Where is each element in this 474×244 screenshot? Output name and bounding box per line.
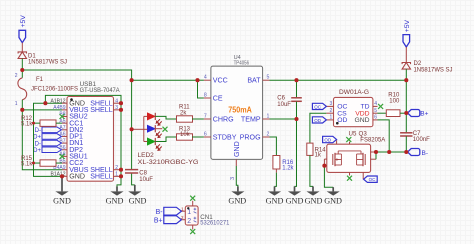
svg-text:F1: F1 xyxy=(36,77,44,83)
svg-text:5.1k: 5.1k xyxy=(21,161,33,167)
svg-text:5: 5 xyxy=(267,75,270,81)
svg-text:100nF: 100nF xyxy=(413,137,430,143)
svg-text:1: 1 xyxy=(181,206,184,211)
svg-text:10uF: 10uF xyxy=(139,177,153,183)
svg-text:GND: GND xyxy=(286,196,304,206)
svg-text:10k: 10k xyxy=(180,132,191,138)
svg-text:5.1k: 5.1k xyxy=(21,121,33,127)
svg-text:1.2k: 1.2k xyxy=(282,165,294,171)
svg-text:GND: GND xyxy=(129,196,147,206)
svg-text:TEMP: TEMP xyxy=(241,115,261,123)
svg-text:OC: OC xyxy=(369,177,377,182)
svg-text:1k: 1k xyxy=(315,153,322,159)
svg-text:B+: B+ xyxy=(154,217,163,224)
svg-text:1N5817WS SJ: 1N5817WS SJ xyxy=(28,60,67,66)
svg-text:C8: C8 xyxy=(139,171,147,177)
svg-text:1: 1 xyxy=(115,172,118,178)
svg-text:2: 2 xyxy=(115,165,118,171)
svg-text:JFC1206-1100FS: JFC1206-1100FS xyxy=(31,87,78,93)
svg-text:+5V: +5V xyxy=(404,19,411,32)
svg-text:1: 1 xyxy=(187,209,191,216)
svg-text:CHRG: CHRG xyxy=(213,115,234,123)
svg-text:D2: D2 xyxy=(414,61,422,67)
svg-text:10uF: 10uF xyxy=(277,102,291,108)
svg-text:6: 6 xyxy=(374,115,377,121)
svg-text:3: 3 xyxy=(115,105,118,111)
svg-text:1: 1 xyxy=(15,101,18,107)
svg-text:D-: D- xyxy=(35,128,41,134)
svg-text:XL-3210RGBC-YG: XL-3210RGBC-YG xyxy=(138,160,199,166)
svg-text:OD: OD xyxy=(337,117,347,124)
svg-text:DW01A-G: DW01A-G xyxy=(339,89,369,96)
svg-text:SHELL: SHELL xyxy=(90,106,113,114)
svg-text:2: 2 xyxy=(15,73,18,79)
svg-text:GND: GND xyxy=(266,196,284,206)
svg-text:2: 2 xyxy=(181,215,184,220)
svg-text:532610271: 532610271 xyxy=(200,220,230,227)
svg-text:2: 2 xyxy=(187,218,191,225)
svg-text:D1: D1 xyxy=(28,54,36,60)
svg-text:GND: GND xyxy=(305,196,323,206)
svg-text:2: 2 xyxy=(330,108,333,114)
svg-text:5: 5 xyxy=(374,108,377,114)
svg-text:A4B9: A4B9 xyxy=(53,105,65,111)
svg-text:2: 2 xyxy=(267,131,270,137)
svg-text:D-: D- xyxy=(35,141,41,147)
svg-text:7: 7 xyxy=(204,113,207,119)
svg-text:LED2: LED2 xyxy=(138,152,155,159)
svg-text:4: 4 xyxy=(204,75,207,81)
svg-text:GT-USB-7047A: GT-USB-7047A xyxy=(80,87,121,94)
svg-text:TP4056: TP4056 xyxy=(234,60,250,66)
svg-text:+5V: +5V xyxy=(20,15,27,28)
svg-text:U5: U5 xyxy=(349,130,357,137)
svg-text:GND: GND xyxy=(354,117,369,124)
svg-text:C6: C6 xyxy=(277,95,285,101)
svg-text:2k: 2k xyxy=(180,111,187,117)
svg-text:D+: D+ xyxy=(33,135,41,141)
svg-text:OC: OC xyxy=(314,104,322,109)
svg-text:B-: B- xyxy=(156,209,164,216)
svg-text:3: 3 xyxy=(230,177,236,180)
svg-text:BAT: BAT xyxy=(247,77,261,85)
svg-text:OD: OD xyxy=(324,138,332,143)
svg-text:3: 3 xyxy=(330,101,333,107)
svg-text:100: 100 xyxy=(389,99,400,105)
svg-text:SHELL: SHELL xyxy=(90,172,113,180)
svg-text:GND: GND xyxy=(324,196,342,206)
svg-text:D+: D+ xyxy=(33,148,41,154)
svg-text:4: 4 xyxy=(374,101,377,107)
svg-text:PROG: PROG xyxy=(240,133,261,141)
svg-text:GND: GND xyxy=(233,141,241,157)
svg-text:6: 6 xyxy=(204,131,207,137)
svg-text:GND: GND xyxy=(228,196,246,206)
svg-text:1: 1 xyxy=(330,115,333,121)
svg-text:B-: B- xyxy=(422,150,429,157)
svg-text:VCC: VCC xyxy=(213,77,228,85)
svg-text:750mA: 750mA xyxy=(228,106,252,115)
svg-text:GND: GND xyxy=(106,196,124,206)
svg-text:OD: OD xyxy=(314,118,322,123)
svg-text:GND: GND xyxy=(53,196,71,206)
svg-text:4: 4 xyxy=(115,98,118,104)
svg-text:8: 8 xyxy=(204,92,207,98)
svg-text:FS8205A: FS8205A xyxy=(360,137,386,144)
svg-text:1N5817WS SJ: 1N5817WS SJ xyxy=(414,68,453,74)
svg-text:B+: B+ xyxy=(420,111,428,118)
svg-text:CE: CE xyxy=(213,94,223,102)
svg-text:1: 1 xyxy=(267,113,270,119)
svg-text:GND: GND xyxy=(69,172,85,180)
svg-text:STDBY: STDBY xyxy=(213,133,237,141)
